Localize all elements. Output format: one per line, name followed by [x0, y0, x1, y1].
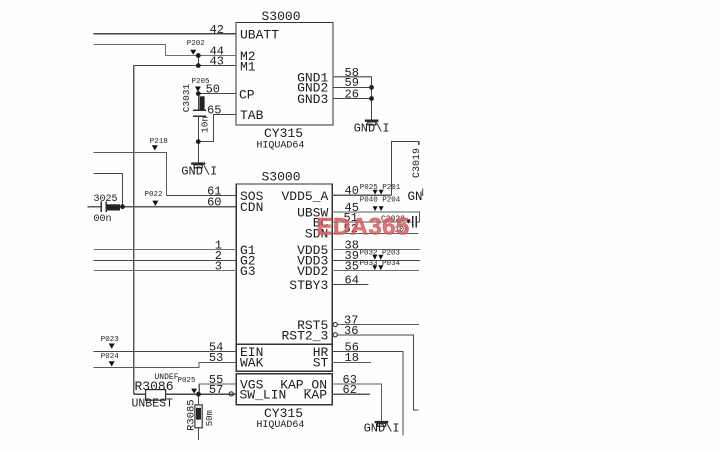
svg-text:P033 P034: P033 P034	[360, 260, 401, 268]
svg-text:UBATT: UBATT	[240, 27, 279, 42]
wire RST5 pin37	[338, 324, 420, 326]
ground GND\I symbol below C3031	[181, 162, 217, 178]
test point P218 triangle	[152, 145, 158, 150]
svg-text:CP: CP	[239, 87, 255, 102]
capacitor C3025 smd label box	[107, 204, 120, 210]
capacitor C3025 symbol	[101, 202, 106, 213]
junction GND3 pin26	[369, 96, 374, 101]
svg-text:S3000: S3000	[262, 170, 301, 185]
wire KAP pin62	[332, 393, 370, 395]
wire SOS pin61	[166, 195, 236, 197]
junction C3031/TAB/GND	[196, 139, 201, 144]
capacitor C3028 plates	[413, 216, 417, 227]
svg-text:P218: P218	[150, 138, 168, 146]
svg-text:3: 3	[215, 259, 222, 273]
wire RST2_3 pin36	[338, 335, 419, 410]
junction SW_LIN/R3085	[196, 392, 201, 397]
wire UBSW pin45	[332, 212, 419, 222]
svg-text:R3085: R3085	[186, 399, 198, 431]
test point P205 triangle	[195, 87, 201, 92]
junction M1 tie	[196, 63, 201, 68]
svg-text:42: 42	[210, 23, 224, 37]
wire ST pin18	[332, 361, 371, 363]
svg-text:P025: P025	[178, 377, 197, 385]
svg-text:60: 60	[207, 196, 221, 210]
wire BC pin51 to C3028	[332, 221, 412, 223]
resistor R3085 smd label box	[196, 408, 201, 420]
test point P022 triangle	[152, 201, 158, 206]
test point P202 triangle	[190, 50, 196, 55]
pin inversion circle RST2_3	[333, 333, 337, 337]
wire GND2 pin59	[333, 86, 372, 88]
test point P033 triangle	[372, 265, 377, 270]
svg-text:P023: P023	[101, 336, 120, 344]
wire HR pin56	[332, 351, 403, 435]
wire C3031 top stem	[197, 94, 199, 110]
wire R3085 bottom stem	[198, 428, 200, 440]
wire KAP_ON pin63	[332, 384, 381, 421]
capacitor C3031 smd label box	[199, 96, 204, 109]
junction M2 tie	[196, 53, 201, 58]
test point P040 triangle	[373, 206, 378, 211]
svg-text:62: 62	[343, 383, 357, 397]
svg-text:GND\I: GND\I	[364, 421, 400, 435]
wire VDD5 pin38	[332, 249, 420, 251]
pin inversion circle RST5	[333, 322, 337, 326]
junction CDN/C3025	[120, 204, 125, 209]
wire GND1 pin58	[333, 76, 372, 78]
svg-text:RST2_3: RST2_3	[281, 328, 328, 343]
svg-text:10n: 10n	[200, 116, 211, 133]
test point P023 triangle	[109, 344, 115, 349]
wire C3031 bottom stem to gnd junction	[197, 116, 199, 162]
wire VDD2 pin35	[332, 269, 419, 271]
svg-text:HIQUAD64: HIQUAD64	[256, 141, 304, 152]
wire net M2 upper segment	[94, 44, 236, 55]
wire CDN pin60	[88, 206, 237, 208]
svg-text:P202: P202	[187, 40, 205, 48]
test point P025b triangle	[373, 190, 378, 195]
wire EIN pin54	[94, 350, 237, 352]
test point P025 triangle	[191, 389, 197, 394]
svg-text:UNDEF: UNDEF	[155, 373, 179, 382]
IC U2 box gate B EIN/WAK	[236, 344, 332, 371]
svg-text:35: 35	[345, 259, 359, 273]
svg-text:GN: GN	[408, 190, 423, 204]
svg-text:STBY3: STBY3	[289, 278, 328, 293]
wire VDD3 pin39	[332, 259, 420, 261]
test point P201 triangle	[379, 190, 384, 195]
resistor R3085 body	[195, 405, 202, 428]
wire C3019 riser	[391, 141, 418, 195]
svg-text:00n: 00n	[94, 214, 112, 225]
svg-text:WAK: WAK	[240, 356, 264, 371]
svg-text:53: 53	[209, 351, 223, 365]
wire R3086 net to SW_LIN pin57	[134, 393, 237, 395]
svg-text:P205: P205	[192, 78, 211, 86]
svg-text:C3019: C3019	[412, 148, 423, 178]
svg-text:ST: ST	[313, 356, 329, 371]
wire link M2-M1 tie	[197, 56, 199, 66]
junction GND2 pin59	[369, 85, 374, 90]
wire G2 pin2	[94, 259, 237, 261]
svg-text:P025 P201: P025 P201	[360, 184, 401, 192]
svg-text:GND\I: GND\I	[181, 165, 217, 179]
svg-text:P032 P203: P032 P203	[360, 249, 401, 257]
test point triangle on pin51 wire	[406, 219, 410, 223]
svg-text:50m: 50m	[205, 410, 215, 426]
svg-text:VDD5_A: VDD5_A	[281, 189, 328, 204]
ground GND\I symbol top right	[354, 120, 390, 136]
ground GND\I symbol bottom right	[364, 421, 400, 436]
test point P204 triangle	[379, 206, 384, 211]
pin inversion circle SW_LIN	[229, 392, 233, 396]
IC U1 box S3000 top	[236, 23, 333, 126]
svg-text:CY315: CY315	[264, 126, 303, 141]
svg-text:P024: P024	[101, 353, 120, 361]
wire VDD5_A pin40	[332, 194, 391, 196]
wire left branch to CDN	[94, 173, 123, 206]
svg-text:EDA365: EDA365	[317, 214, 410, 241]
svg-text:64: 64	[345, 273, 359, 287]
svg-text:3025: 3025	[94, 194, 118, 205]
wire net UBATT pin42	[94, 33, 236, 35]
wire net P218 horizontal to SOS	[94, 152, 167, 195]
junction CP/C3031	[196, 91, 201, 96]
svg-text:18: 18	[345, 351, 359, 365]
test point P032 triangle	[372, 255, 377, 260]
wire VGS pin55	[199, 384, 236, 394]
svg-text:UNBEST: UNBEST	[132, 397, 174, 410]
svg-text:GND3: GND3	[297, 92, 328, 107]
svg-text:G3: G3	[240, 264, 256, 279]
IC U2 box gate C VGS/SW_LIN	[236, 374, 332, 405]
wire G1 pin1	[94, 249, 237, 251]
svg-text:65: 65	[207, 104, 221, 118]
wire net CP pin50	[198, 93, 236, 95]
wire R3085 top stem	[198, 394, 200, 405]
svg-text:TAB: TAB	[240, 108, 264, 123]
svg-text:P022: P022	[145, 191, 163, 199]
svg-text:HIQUAD64: HIQUAD64	[256, 420, 304, 431]
capacitor C3031 plates	[193, 110, 206, 116]
wire gnd drop top right	[371, 77, 373, 120]
svg-text:CY315: CY315	[264, 406, 303, 421]
wire long vertical M1 to R3086	[133, 66, 135, 395]
svg-text:57: 57	[209, 383, 223, 397]
wire G3 pin3	[94, 269, 237, 271]
svg-text:VDD2: VDD2	[297, 264, 328, 279]
svg-text:S3000: S3000	[262, 9, 301, 24]
svg-text:GND\I: GND\I	[354, 121, 390, 135]
svg-text:26: 26	[345, 88, 359, 102]
wire net M1 pin43	[134, 65, 236, 67]
wire GND3 pin26	[333, 98, 372, 100]
svg-text:P040 P204: P040 P204	[360, 196, 401, 204]
svg-text:36: 36	[344, 324, 358, 338]
svg-text:KAP: KAP	[304, 387, 328, 402]
test point P034 triangle	[378, 265, 383, 270]
wire SDN pin52	[332, 232, 419, 234]
wire C3028 right plate stub	[417, 221, 420, 223]
resistor R3086 body	[146, 390, 166, 401]
svg-text:40: 40	[345, 184, 359, 198]
IC U2 box S3000 gate A	[236, 184, 332, 344]
svg-text:C3031: C3031	[181, 83, 192, 112]
svg-text:CDN: CDN	[240, 200, 263, 215]
svg-text:43: 43	[210, 55, 224, 69]
wire STBY3 pin64	[332, 283, 368, 285]
test point P024 triangle	[109, 361, 115, 366]
test point P203 triangle	[378, 255, 383, 260]
wire WAK pin53 jog	[94, 362, 237, 367]
wire net TAB pin65 elbow	[198, 114, 236, 141]
svg-text:M1: M1	[240, 59, 256, 74]
